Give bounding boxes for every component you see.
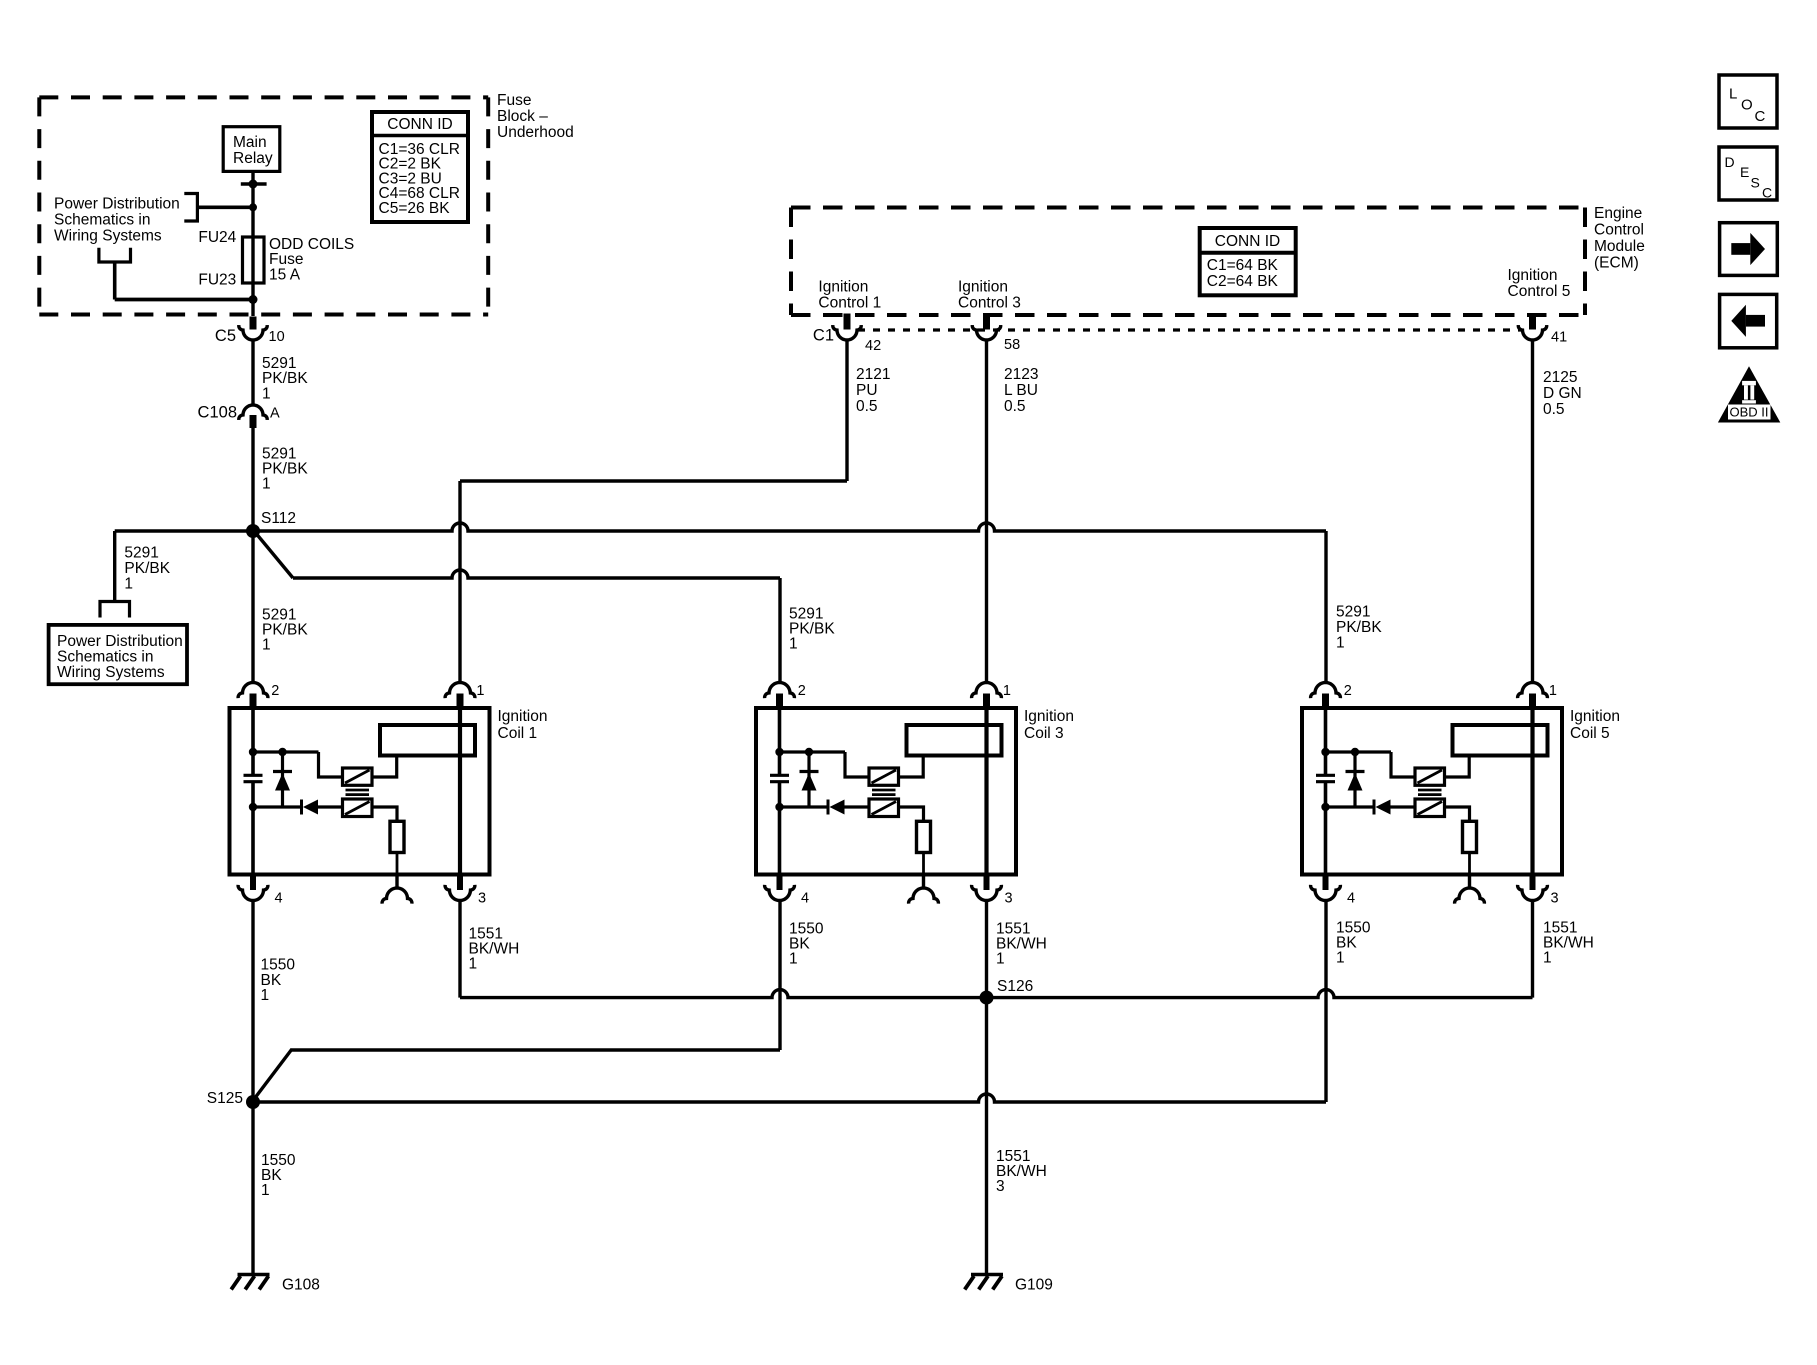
svg-text:Ignition: Ignition <box>1570 708 1620 725</box>
svg-text:1: 1 <box>789 636 798 653</box>
svg-text:0.5: 0.5 <box>1004 398 1026 415</box>
svg-text:L BU: L BU <box>1004 382 1038 399</box>
svg-text:Control 5: Control 5 <box>1508 283 1571 300</box>
svg-text:2: 2 <box>798 683 806 699</box>
svg-text:Power Distribution: Power Distribution <box>57 633 183 650</box>
svg-text:C5=26 BK: C5=26 BK <box>379 200 451 217</box>
svg-text:4: 4 <box>1347 890 1355 906</box>
svg-text:C1: C1 <box>813 327 834 345</box>
svg-text:5291: 5291 <box>1336 604 1370 621</box>
svg-text:42: 42 <box>865 338 881 354</box>
svg-text:PK/BK: PK/BK <box>124 560 170 577</box>
svg-text:Block –: Block – <box>497 108 548 125</box>
svg-text:Ignition: Ignition <box>1024 708 1074 725</box>
svg-text:Ignition: Ignition <box>958 279 1008 296</box>
svg-text:2123: 2123 <box>1004 366 1038 383</box>
svg-text:Control: Control <box>1594 222 1644 239</box>
svg-text:1: 1 <box>1336 950 1345 967</box>
svg-text:1: 1 <box>1549 683 1557 699</box>
svg-text:3: 3 <box>1551 890 1559 906</box>
svg-text:FU23: FU23 <box>198 272 236 289</box>
svg-text:S112: S112 <box>261 510 296 527</box>
svg-text:Coil 3: Coil 3 <box>1024 725 1064 742</box>
svg-text:2121: 2121 <box>856 366 890 383</box>
svg-text:58: 58 <box>1004 337 1020 353</box>
svg-text:3: 3 <box>478 890 486 906</box>
svg-text:1: 1 <box>1336 635 1345 652</box>
svg-text:4: 4 <box>275 890 283 906</box>
svg-text:Ignition: Ignition <box>1508 267 1558 284</box>
svg-text:1: 1 <box>124 576 133 593</box>
svg-text:1: 1 <box>996 951 1005 968</box>
svg-text:1: 1 <box>261 1182 270 1199</box>
svg-text:5291: 5291 <box>124 545 158 562</box>
svg-text:Wiring Systems: Wiring Systems <box>54 227 162 244</box>
svg-text:C1=64 BK: C1=64 BK <box>1207 257 1279 274</box>
svg-text:Coil 1: Coil 1 <box>498 725 538 742</box>
svg-text:1: 1 <box>1543 950 1552 967</box>
svg-text:1: 1 <box>789 951 798 968</box>
svg-text:Schematics in: Schematics in <box>54 212 150 229</box>
svg-text:1550: 1550 <box>261 957 296 974</box>
svg-text:1: 1 <box>476 683 484 699</box>
svg-text:Underhood: Underhood <box>497 124 574 141</box>
svg-text:0.5: 0.5 <box>1543 401 1565 418</box>
svg-text:C108: C108 <box>198 404 237 422</box>
svg-text:Ignition: Ignition <box>498 708 548 725</box>
svg-text:1: 1 <box>261 987 270 1004</box>
svg-text:CONN ID: CONN ID <box>1215 233 1280 250</box>
svg-text:(ECM): (ECM) <box>1594 255 1639 272</box>
svg-text:G109: G109 <box>1015 1277 1053 1294</box>
svg-text:Relay: Relay <box>233 150 273 167</box>
svg-text:3: 3 <box>996 1178 1005 1195</box>
svg-text:C: C <box>1762 185 1772 201</box>
svg-text:FU24: FU24 <box>198 229 236 246</box>
svg-text:2: 2 <box>271 683 279 699</box>
svg-text:41: 41 <box>1551 330 1567 346</box>
svg-text:PK/BK: PK/BK <box>262 370 308 387</box>
svg-text:Main: Main <box>233 134 267 151</box>
svg-text:C2=64 BK: C2=64 BK <box>1207 273 1279 290</box>
svg-text:Control 3: Control 3 <box>958 294 1021 311</box>
svg-text:Ignition: Ignition <box>818 279 868 296</box>
svg-text:Wiring Systems: Wiring Systems <box>57 664 165 681</box>
svg-text:0.5: 0.5 <box>856 398 878 415</box>
svg-text:4: 4 <box>801 890 809 906</box>
svg-text:Engine: Engine <box>1594 205 1642 222</box>
svg-text:Coil 5: Coil 5 <box>1570 725 1610 742</box>
svg-text:Power Distribution: Power Distribution <box>54 196 180 213</box>
svg-text:1: 1 <box>1003 683 1011 699</box>
svg-text:PU: PU <box>856 382 878 399</box>
svg-text:E: E <box>1740 164 1749 180</box>
svg-text:1: 1 <box>262 476 271 493</box>
svg-text:10: 10 <box>269 329 285 345</box>
svg-text:2: 2 <box>1344 683 1352 699</box>
svg-text:G108: G108 <box>282 1277 320 1294</box>
svg-text:Module: Module <box>1594 238 1645 255</box>
svg-text:Control 1: Control 1 <box>818 294 881 311</box>
svg-text:Fuse: Fuse <box>497 92 531 109</box>
svg-text:S: S <box>1751 174 1760 190</box>
svg-text:3: 3 <box>1005 890 1013 906</box>
svg-text:O: O <box>1741 97 1753 114</box>
svg-text:S126: S126 <box>997 978 1033 995</box>
svg-text:C5: C5 <box>215 327 236 345</box>
svg-text:1: 1 <box>262 386 271 403</box>
svg-text:A: A <box>270 405 280 421</box>
svg-text:D: D <box>1725 154 1735 170</box>
svg-text:15 A: 15 A <box>269 266 301 283</box>
svg-text:D GN: D GN <box>1543 385 1582 402</box>
svg-text:C: C <box>1755 108 1766 125</box>
svg-text:1: 1 <box>262 637 271 654</box>
svg-text:2125: 2125 <box>1543 369 1577 386</box>
svg-text:OBD II: OBD II <box>1729 405 1768 420</box>
svg-text:S125: S125 <box>207 1090 243 1107</box>
svg-text:L: L <box>1729 86 1737 103</box>
svg-text:CONN ID: CONN ID <box>387 116 452 133</box>
svg-text:PK/BK: PK/BK <box>1336 619 1382 636</box>
svg-text:1: 1 <box>469 956 478 973</box>
